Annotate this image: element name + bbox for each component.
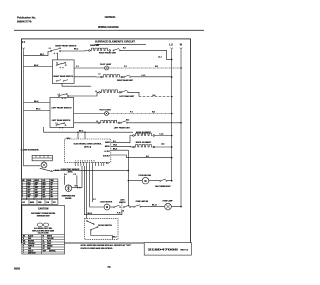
- wire LR switch to LF unit: [74, 122, 98, 124]
- svg-text:ON: ON: [50, 194, 52, 196]
- switch RIGHT REAR SWITCH: [52, 60, 74, 84]
- svg-text:GN: GN: [43, 245, 45, 247]
- svg-text:Y: Y: [43, 238, 44, 240]
- wire L1 to RR switch: [24, 66, 53, 68]
- connector EOC pin comb P1-P9: [75, 160, 108, 166]
- svg-text:FEF356ASA: FEF356ASA: [105, 15, 116, 19]
- wire EOC L1 relay down: [111, 150, 129, 206]
- wire EOC top taps: [77, 132, 79, 139]
- svg-text:OR-2: OR-2: [113, 145, 117, 147]
- wire L1 to RF switch: [24, 52, 58, 60]
- svg-text:DLB RLY: DLB RLY: [103, 156, 111, 158]
- switch oven lamp switch: [134, 200, 165, 208]
- svg-text:PILOT LIGHT: PILOT LIGHT: [100, 110, 112, 112]
- wire EOC bake relay to bake element: [111, 136, 133, 143]
- svg-text:V: V: [23, 250, 24, 252]
- svg-text:70: 70: [107, 265, 111, 269]
- svg-text:3902: 3902: [14, 266, 21, 270]
- svg-text:LEFT REAR SWITCH: LEFT REAR SWITCH: [52, 119, 71, 122]
- wire thermostat to L2: [167, 180, 172, 182]
- wire RR switch lower tap: [62, 83, 91, 86]
- wire EOC broil relay to broil element: [111, 145, 133, 148]
- switch RIGHT FRONT SWITCH: [49, 45, 77, 53]
- element RIGHT REAR UNIT: [99, 73, 134, 82]
- svg-text:120V: 120V: [35, 187, 38, 189]
- svg-text:N-4: N-4: [153, 94, 156, 97]
- svg-text:(EOC 4): (EOC 4): [84, 146, 91, 149]
- svg-text:L1: L1: [22, 40, 26, 44]
- svg-text:CLN: CLN: [42, 180, 45, 182]
- wire RR switch to RR unit: [74, 76, 101, 78]
- svg-text:COOLING FAN: COOLING FAN: [138, 174, 151, 177]
- svg-text:R-5: R-5: [146, 156, 149, 158]
- svg-text:GRN/YEL: GRN/YEL: [49, 250, 56, 252]
- door actuated arrow: [40, 168, 53, 171]
- wire LF unit to N: [128, 122, 182, 124]
- svg-text:P-10: P-10: [117, 213, 120, 215]
- svg-text:120V: 120V: [42, 197, 45, 199]
- svg-text:DOOR CLOSED AND UNLOCKED.: DOOR CLOSED AND UNLOCKED.: [81, 247, 114, 250]
- svg-text:W-1: W-1: [155, 66, 158, 68]
- svg-text:L2: L2: [169, 43, 173, 47]
- svg-text:Publication No.: Publication No.: [17, 15, 36, 19]
- wire fan branch: [128, 180, 142, 182]
- svg-text:WIRING DIAGRAM: WIRING DIAGRAM: [98, 25, 119, 29]
- svg-text:T: T: [23, 248, 24, 250]
- svg-text:BROIL: BROIL: [105, 146, 110, 148]
- legend caution box: [22, 205, 65, 254]
- svg-text:CLN: CLN: [46, 202, 49, 204]
- svg-text:GY: GY: [43, 243, 45, 245]
- svg-text:L1 RLY: L1 RLY: [104, 151, 110, 153]
- svg-text:SEE NOTE: SEE NOTE: [28, 253, 36, 255]
- element LEFT FRONT UNIT: [96, 120, 130, 129]
- oven light connector block: [32, 155, 52, 161]
- svg-text:OFF: OFF: [27, 187, 30, 189]
- wire oven light feed to lamp circuit: [53, 170, 128, 172]
- svg-text:RIGHT REAR UNIT: RIGHT REAR UNIT: [117, 79, 134, 82]
- wire long feed BK-5: [44, 127, 133, 132]
- svg-text:L1: L1: [99, 73, 101, 75]
- svg-text:ELECTRONIC OVEN CONTROL: ELECTRONIC OVEN CONTROL: [74, 144, 103, 146]
- svg-text:M: M: [144, 179, 146, 183]
- wire broil to L2: [155, 146, 172, 148]
- svg-text:RIGHT FRONT UNIT: RIGHT FRONT UNIT: [99, 53, 117, 55]
- svg-text:OFF: OFF: [50, 182, 53, 184]
- switch box LEFT FRONT / LEFT REAR: [50, 98, 74, 129]
- table wire color code: [22, 235, 65, 255]
- pilot lamp 1: [100, 64, 112, 70]
- svg-text:BK-4: BK-4: [34, 100, 38, 103]
- svg-text:* = SEE SCHEMATIC: * = SEE SCHEMATIC: [21, 148, 40, 151]
- element BAKE ELEMENT: [133, 131, 155, 137]
- oven lamp: [162, 199, 173, 210]
- switch door switch box (dashed): [84, 219, 118, 240]
- thermostat fan switch: [149, 179, 172, 188]
- svg-text:BROWN: BROWN: [28, 240, 34, 242]
- svg-text:WHITE: WHITE: [47, 235, 52, 237]
- svg-text:Y-1: Y-1: [76, 66, 79, 68]
- svg-text:TIME: TIME: [50, 180, 53, 182]
- svg-text:(RTD): (RTD): [68, 171, 73, 173]
- svg-text:W-3: W-3: [152, 112, 155, 114]
- top rule: [14, 29, 204, 31]
- main border frame: [21, 39, 190, 243]
- svg-text:BK-12: BK-12: [152, 205, 157, 207]
- svg-text:OVEN LAMP: OVEN LAMP: [162, 199, 173, 202]
- svg-text:R-2: R-2: [123, 47, 126, 49]
- svg-text:LEFT REAR UNIT: LEFT REAR UNIT: [119, 95, 135, 98]
- svg-text:R-1: R-1: [113, 141, 116, 143]
- svg-text:NOTE: SWITCHES SHOWN WITH ALL: NOTE: SWITCHES SHOWN WITH ALL CIRCUITS A…: [81, 244, 133, 247]
- svg-text:DOOR SWITCH: DOOR SWITCH: [98, 225, 112, 227]
- wire L1 to switch box BK-3: [24, 110, 51, 112]
- svg-text:SWITCH: SWITCH: [119, 202, 126, 204]
- svg-text:5995417779: 5995417779: [17, 20, 32, 24]
- svg-text:L1: L1: [49, 48, 51, 50]
- wire sensor to harness: [72, 187, 82, 189]
- svg-text:RIGHT REAR SWITCH: RIGHT REAR SWITCH: [53, 75, 73, 78]
- svg-text:LEFT FRONT SWITCH: LEFT FRONT SWITCH: [52, 108, 72, 110]
- svg-text:CAUTION: CAUTION: [38, 207, 49, 210]
- sensor probe: [62, 185, 76, 200]
- svg-text:SURFACE ELEMENTS CIRCUIT: SURFACE ELEMENTS CIRCUIT: [95, 40, 135, 44]
- svg-text:BK-11: BK-11: [88, 213, 93, 215]
- svg-text:BROIL: BROIL: [35, 180, 40, 182]
- svg-text:120V: 120V: [27, 194, 30, 196]
- svg-text:LOCK MOTOR: LOCK MOTOR: [100, 202, 113, 204]
- svg-text:BK-8: BK-8: [34, 65, 38, 67]
- wire RR switch to pilot 1: [74, 67, 105, 69]
- svg-text:BK-1: BK-1: [40, 54, 44, 56]
- svg-text:BK-2: BK-2: [74, 49, 78, 51]
- part number box: [144, 243, 191, 256]
- svg-text:REV A: REV A: [181, 248, 189, 251]
- svg-text:LEFT FRONT UNIT: LEFT FRONT UNIT: [114, 127, 131, 129]
- wire bake to L2: [155, 135, 172, 137]
- wire LF switch to LR unit: [68, 92, 99, 96]
- svg-text:RIGHT FRONT SWITCH: RIGHT FRONT SWITCH: [55, 45, 77, 47]
- svg-text:L2-1: L2-1: [158, 56, 162, 58]
- svg-text:OFF: OFF: [42, 192, 45, 194]
- svg-text:FAN THERMOSTAT: FAN THERMOSTAT: [155, 185, 171, 188]
- svg-text:P-7: P-7: [93, 199, 96, 201]
- motor lock motor: [100, 202, 113, 210]
- svg-text:OFF: OFF: [42, 194, 45, 196]
- svg-text:L1: L1: [56, 62, 58, 64]
- svg-text:VIOLET: VIOLET: [28, 250, 34, 252]
- wire LR switch to pilot 2: [74, 113, 105, 115]
- svg-text:N: N: [180, 43, 182, 47]
- element BROIL ELEMENT: [133, 142, 155, 148]
- svg-text:BK-3: BK-3: [36, 109, 40, 111]
- svg-text:PURPLE: PURPLE: [28, 245, 34, 247]
- wire RR unit to L2: [123, 75, 130, 78]
- oven light lamp: [40, 161, 59, 172]
- element RIGHT FRONT UNIT: [89, 44, 117, 55]
- wire N bus: [180, 51, 182, 207]
- svg-text:318047005: 318047005: [148, 248, 179, 252]
- svg-text:OFF: OFF: [50, 190, 53, 192]
- svg-text:BK-5: BK-5: [79, 130, 83, 132]
- element LEFT REAR UNIT: [95, 90, 135, 98]
- controller U1 ELECTRONIC OVEN CONTROL: [65, 139, 111, 162]
- svg-text:M: M: [106, 206, 108, 209]
- svg-text:P-3: P-3: [74, 174, 77, 176]
- svg-text:OFF: OFF: [35, 197, 38, 199]
- motor cooling fan: [138, 174, 151, 184]
- svg-text:ON: ON: [50, 185, 52, 187]
- wire L1 to switch box BK-4: [24, 102, 51, 104]
- svg-text:PROBE: PROBE: [65, 198, 72, 200]
- svg-text:GN/Y: GN/Y: [43, 250, 47, 252]
- svg-text:W-2: W-2: [126, 120, 129, 122]
- svg-text:LOT: LOT: [22, 202, 25, 204]
- svg-text:BK-2: BK-2: [113, 236, 117, 238]
- svg-text:BLUE: BLUE: [47, 240, 51, 242]
- svg-text:L2-5: L2-5: [161, 143, 165, 145]
- wire sensor drops: [64, 175, 77, 185]
- svg-text:SERVICING UNIT: SERVICING UNIT: [37, 216, 50, 218]
- svg-text:BK-9: BK-9: [113, 148, 117, 150]
- svg-text:P-1: P-1: [124, 66, 127, 68]
- wire EOC DLB relay to L2: [111, 155, 172, 158]
- wire L2 bus: [171, 51, 173, 181]
- svg-text:OFF: OFF: [35, 185, 38, 187]
- switch lock switch contacts: [110, 200, 134, 213]
- sensor header labels: [61, 169, 80, 176]
- svg-text:L2-3: L2-3: [142, 75, 146, 77]
- wire L1 bus: [24, 51, 41, 166]
- wire LR unit to N dashed: [128, 92, 139, 96]
- wire RF switch to RF unit: [61, 50, 89, 53]
- svg-text:TIME: TIME: [38, 202, 41, 204]
- wire RF unit to L2: [113, 49, 120, 52]
- svg-text:L2-4: L2-4: [160, 133, 164, 136]
- svg-text:ON: ON: [50, 187, 52, 189]
- wire harness bundle: [82, 166, 124, 219]
- table switch chart: [21, 179, 58, 204]
- svg-text:YELLOW: YELLOW: [47, 238, 54, 240]
- pilot lamp 2: [100, 110, 112, 116]
- svg-text:OFF: OFF: [27, 197, 30, 199]
- svg-text:ON: ON: [50, 192, 52, 194]
- wire pilot 2 to L2: [109, 113, 172, 115]
- svg-text:GREEN: GREEN: [47, 245, 52, 247]
- svg-text:L1: L1: [95, 91, 97, 93]
- wire lamp to N: [171, 206, 181, 208]
- svg-text:120V: 120V: [35, 194, 38, 196]
- svg-text:P-2: P-2: [106, 163, 109, 165]
- svg-text:BL: BL: [43, 240, 45, 242]
- svg-text:OFF: OFF: [27, 192, 30, 194]
- svg-text:OR-1: OR-1: [75, 186, 79, 188]
- svg-text:120V: 120V: [42, 185, 45, 187]
- svg-text:OFF: OFF: [42, 187, 45, 189]
- svg-text:OFF: OFF: [50, 197, 53, 199]
- svg-text:120V: 120V: [27, 185, 30, 187]
- svg-text:DISCONNECT POWER BEFORE: DISCONNECT POWER BEFORE: [31, 213, 55, 215]
- svg-text:OFF: OFF: [35, 190, 38, 192]
- svg-text:P-2: P-2: [130, 112, 133, 114]
- switch LEFT FRONT SWITCH: [58, 94, 69, 99]
- svg-text:TOP: TOP: [53, 202, 56, 204]
- svg-text:P: P: [23, 245, 24, 247]
- svg-text:BROIL ELEMENT: BROIL ELEMENT: [136, 142, 152, 144]
- wire pilot 1 to N: [109, 67, 181, 69]
